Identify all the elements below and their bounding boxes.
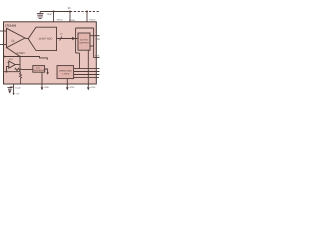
op-amp A1 buffer bbox=[9, 61, 15, 68]
wire bus line 1 bbox=[74, 68, 100, 70]
svg-text:DVDD: DVDD bbox=[69, 19, 75, 21]
node dot plus bbox=[6, 71, 8, 73]
svg-text:GND: GND bbox=[90, 86, 95, 88]
wire op-amp output bbox=[15, 57, 20, 65]
node dot DVDD bbox=[69, 11, 71, 13]
background bbox=[0, 0, 100, 100]
resistor R1 zigzag bbox=[15, 68, 22, 70]
svg-text:BUF: BUF bbox=[9, 58, 13, 60]
svg-text:5V: 5V bbox=[68, 7, 71, 10]
IC body U1 bbox=[4, 22, 97, 84]
svg-text:BUFFERS: BUFFERS bbox=[80, 42, 89, 44]
svg-text:REFERENCE: REFERENCE bbox=[34, 70, 46, 72]
svg-text:SCK: SCK bbox=[95, 55, 100, 58]
wire ref input left bbox=[22, 69, 33, 71]
wire bottom row bbox=[4, 71, 21, 73]
wire vertical x75.6 bbox=[75, 28, 77, 53]
wire buffer to bus vertical bbox=[90, 45, 94, 47]
wire vertical right bus bbox=[93, 28, 95, 58]
block U2 OUTPUT BUFFERS bbox=[78, 33, 90, 50]
svg-text:14-BIT ADC: 14-BIT ADC bbox=[39, 38, 53, 41]
block U4 2.5V REFERENCE bbox=[33, 66, 45, 73]
wire OVDD pin bbox=[86, 12, 88, 22]
node dot ref left bbox=[4, 56, 6, 58]
ground arrow bottom left bbox=[8, 90, 11, 93]
wire supply rail solid bbox=[40, 11, 70, 13]
svg-text:OVDD: OVDD bbox=[89, 19, 95, 21]
wire VSS pin bottom left bbox=[13, 84, 15, 94]
svg-text:4.096V: 4.096V bbox=[16, 52, 25, 55]
wire elbow bbox=[76, 52, 80, 54]
wire diagonal vref to triangle bbox=[7, 48, 21, 57]
bus slash bbox=[60, 36, 62, 40]
ground arrow right bbox=[87, 87, 90, 90]
wire AIN+ input bbox=[0, 30, 7, 32]
block U3 TIMING AND LOGIC bbox=[57, 66, 74, 79]
wire plus input bbox=[7, 67, 9, 72]
svg-text:LTC1403: LTC1403 bbox=[5, 24, 16, 27]
wire timing ground vertical bbox=[66, 79, 68, 88]
bus wire ADC to buffers bbox=[57, 38, 78, 40]
ground arrow VSS pin bbox=[13, 93, 15, 95]
wire SCK out bbox=[94, 57, 100, 59]
wire cap branch bbox=[10, 86, 14, 88]
wire top horizontal y28 bbox=[76, 27, 94, 29]
arrowhead down ref bbox=[46, 72, 49, 74]
wire op-amp out to resistor bbox=[19, 65, 21, 70]
svg-text:2.5V: 2.5V bbox=[36, 67, 40, 69]
wire bus line 3 bbox=[74, 74, 100, 76]
svg-text:TIMING AND: TIMING AND bbox=[59, 70, 72, 72]
svg-text:0.1µF: 0.1µF bbox=[15, 87, 21, 89]
wire triangle to ADC bbox=[25, 37, 28, 39]
svg-text:GND: GND bbox=[69, 86, 74, 88]
ground earth top bbox=[38, 16, 43, 18]
wire AVDD pin bbox=[53, 12, 55, 22]
wire DOUT top right bbox=[90, 35, 100, 37]
ground arrow left bbox=[41, 87, 44, 90]
amplifier S/H triangle bbox=[7, 28, 26, 47]
svg-text:10µF: 10µF bbox=[47, 13, 52, 16]
svg-text:AVDD: AVDD bbox=[57, 19, 63, 21]
wire REF 4.096V horizontal bbox=[4, 57, 48, 60]
resistor R2 vertical bbox=[19, 72, 21, 84]
capacitor C2 bottom bbox=[7, 87, 12, 89]
wire vertical x79.5 bbox=[79, 53, 81, 69]
wire DVDD pin bbox=[69, 12, 71, 22]
node dot AVDD bbox=[53, 11, 55, 13]
svg-text:ΣΔ: ΣΔ bbox=[11, 39, 14, 42]
svg-text:OUTPUT: OUTPUT bbox=[80, 39, 88, 41]
node dot ref mid bbox=[19, 56, 21, 58]
wire AIN- input bbox=[0, 44, 7, 46]
svg-text:−5V: −5V bbox=[15, 93, 19, 95]
svg-text:LOGIC: LOGIC bbox=[63, 73, 70, 75]
wire supply rail dashed bbox=[70, 11, 100, 13]
wire bus line 4 bbox=[74, 76, 99, 78]
ground arrow mid bbox=[66, 87, 69, 90]
svg-text:14: 14 bbox=[60, 32, 63, 35]
capacitor C1 top bypass bbox=[39, 12, 41, 14]
wire bus line 2 bbox=[74, 71, 100, 73]
wire ref ground vertical bbox=[41, 72, 43, 87]
wire minus input stub bbox=[8, 62, 9, 64]
ADC pentagon 14-BIT ADC bbox=[28, 27, 56, 50]
bus arrowhead bbox=[72, 37, 75, 40]
node dot OVDD bbox=[86, 11, 88, 13]
svg-text:SDO: SDO bbox=[95, 38, 100, 41]
wire ref output right bbox=[45, 69, 48, 73]
svg-text:GND: GND bbox=[44, 86, 49, 88]
wire buffer ground vertical bbox=[87, 50, 89, 87]
